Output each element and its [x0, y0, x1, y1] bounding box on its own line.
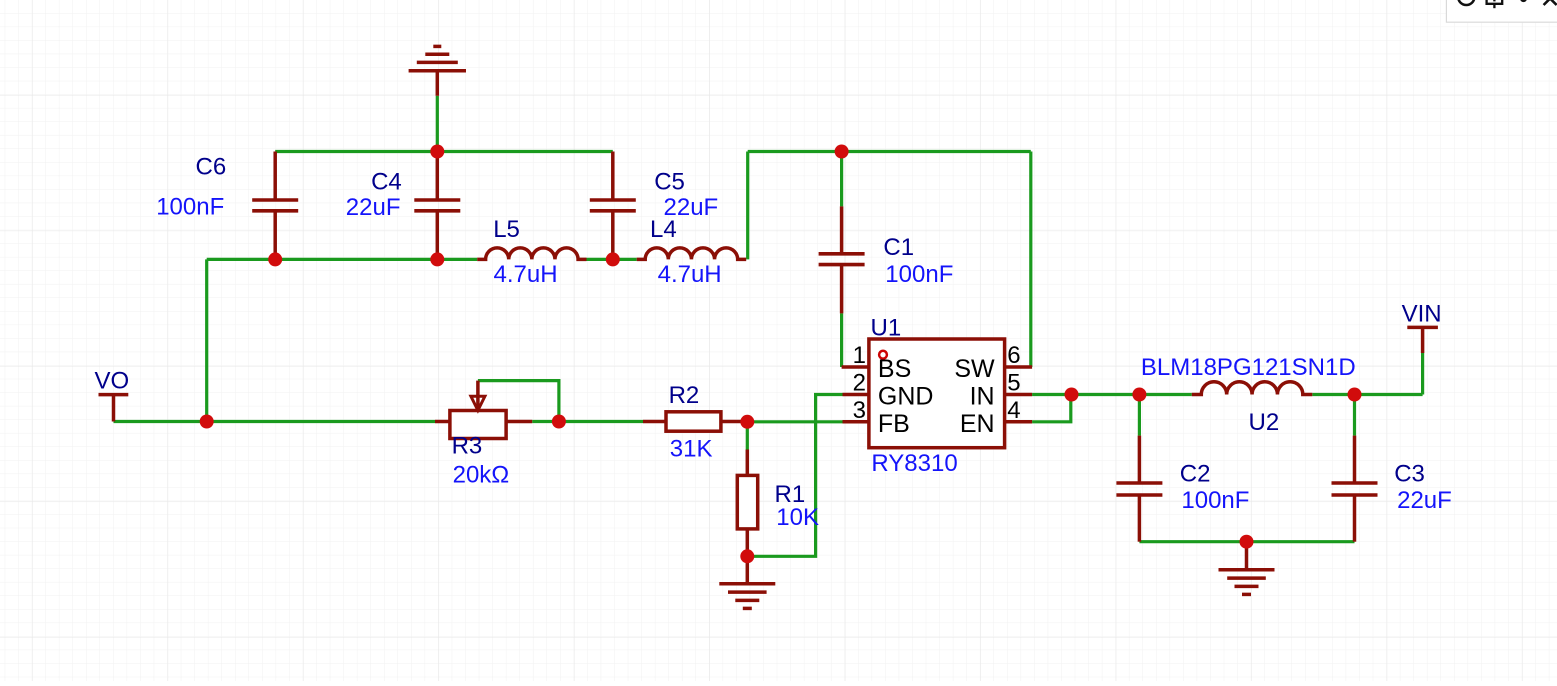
wire row B mid L5-L4 [587, 258, 637, 261]
svg-text:31K: 31K [670, 435, 713, 462]
svg-text:20kΩ: 20kΩ [453, 461, 510, 488]
wire C1 bottom to pin1 [840, 313, 843, 367]
U1 pin 4 stub [1005, 420, 1033, 424]
R2 left lead [643, 420, 666, 424]
wire VIN stem green [1421, 353, 1424, 395]
ground under bottom rail [1219, 542, 1275, 595]
R1 top lead [746, 450, 750, 476]
svg-text:22uF: 22uF [346, 194, 401, 221]
svg-text:6: 6 [1007, 342, 1020, 369]
svg-text:4.7uH: 4.7uH [494, 261, 558, 288]
capacitor C5 [590, 152, 636, 260]
svg-text:R3: R3 [452, 433, 483, 460]
capacitor C4 [414, 152, 460, 260]
toolbar popup panel [1446, 0, 1557, 22]
toolbar pin icon [1487, 0, 1503, 8]
node R2-R1-FB [740, 415, 754, 429]
node C6 bottom [268, 252, 282, 266]
svg-text:C1: C1 [883, 234, 914, 261]
wire C1 top [840, 152, 843, 207]
svg-text:100nF: 100nF [156, 194, 224, 221]
R3 left lead [435, 420, 450, 424]
wire EN tie [1032, 395, 1071, 422]
wire R2 to FB [747, 420, 842, 423]
svg-text:R2: R2 [669, 382, 700, 409]
svg-text:U1: U1 [871, 315, 902, 342]
svg-text:22uF: 22uF [1397, 487, 1452, 514]
wire C2 top [1138, 395, 1141, 436]
toolbar rotate icon [1458, 0, 1475, 5]
svg-text:4.7uH: 4.7uH [658, 261, 722, 288]
wire R3 wiper link [478, 381, 559, 422]
toolbar dot icon [1520, 0, 1527, 2]
R3 wiper arrow [471, 381, 485, 411]
wire R1 gnd to pin2 [747, 395, 842, 557]
wire top right rail [748, 150, 1031, 153]
svg-text:5: 5 [1007, 370, 1020, 397]
text layer [95, 154, 1452, 532]
node gnd-C4 top [430, 145, 444, 159]
wire top GND rail [275, 150, 613, 153]
wire R3 to R2 [532, 420, 643, 423]
svg-text:GND: GND [878, 382, 934, 410]
R3 right lead [506, 420, 532, 424]
svg-text:IN: IN [970, 382, 995, 410]
capacitor C3 [1332, 436, 1378, 542]
node C4 bottom [430, 252, 444, 266]
node bottom ground [1240, 535, 1254, 549]
svg-text:RY8310: RY8310 [871, 450, 957, 477]
wire row B left [207, 258, 478, 261]
wires layer [114, 96, 1423, 557]
svg-text:BLM18PG121SN1D: BLM18PG121SN1D [1141, 354, 1356, 381]
svg-text:VIN: VIN [1402, 301, 1442, 328]
svg-text:10K: 10K [776, 504, 819, 531]
R2 right lead [721, 420, 747, 424]
node IN-EN [1065, 388, 1079, 402]
U1 pin 6 stub [1005, 365, 1033, 369]
toolbar close icon [1544, 0, 1557, 5]
svg-text:L5: L5 [493, 216, 520, 243]
svg-text:C3: C3 [1394, 461, 1425, 488]
net flag VO [99, 395, 129, 422]
svg-text:3: 3 [853, 397, 866, 424]
node C1 top [835, 145, 849, 159]
net flag VIN [1407, 327, 1438, 353]
svg-text:100nF: 100nF [1181, 487, 1249, 514]
wire ground stem green [436, 96, 439, 152]
svg-text:VO: VO [95, 368, 130, 395]
inductor L4 [637, 248, 747, 260]
potentiometer R3 body [450, 411, 506, 439]
ground under R1 [719, 556, 775, 608]
wire C3 top [1353, 395, 1356, 436]
node C5 bottom [606, 252, 620, 266]
node R3 wiper [552, 415, 566, 429]
svg-text:EN: EN [960, 410, 995, 438]
U1 pin 2 stub [843, 393, 869, 397]
wire IN net left [1032, 393, 1192, 396]
node C3 top [1348, 388, 1362, 402]
svg-text:U2: U2 [1249, 409, 1280, 436]
op-amp U1 body [869, 339, 1005, 448]
wire SW drop [1029, 152, 1032, 368]
ferrite bead U2 [1192, 382, 1313, 395]
wire IN net right [1312, 393, 1422, 396]
node VO column [200, 415, 214, 429]
ground top symbol [409, 46, 466, 95]
svg-text:SW: SW [954, 355, 995, 383]
U1 pin 1 stub [842, 365, 869, 369]
svg-text:2: 2 [853, 370, 866, 397]
maroon component layer [99, 46, 1438, 608]
svg-text:C2: C2 [1180, 461, 1211, 488]
wire R1 top [746, 422, 749, 450]
svg-text:4: 4 [1007, 397, 1020, 424]
wire main row VO to R3 [114, 420, 436, 423]
U1 pin1 marker [879, 351, 887, 359]
svg-text:BS: BS [878, 355, 911, 383]
capacitor C6 [252, 152, 298, 260]
svg-text:100nF: 100nF [885, 261, 953, 288]
node R1 ground [740, 549, 754, 563]
node C2 top [1132, 388, 1146, 402]
U1 pin 5 stub [1005, 393, 1033, 397]
svg-text:C4: C4 [371, 169, 402, 196]
svg-text:L4: L4 [650, 216, 677, 243]
svg-text:FB: FB [878, 410, 910, 438]
resistor R1 body [737, 475, 757, 529]
svg-text:1: 1 [853, 342, 866, 369]
wire L4 up corner [746, 152, 749, 260]
capacitor C1 [819, 206, 865, 313]
inductor L5 [477, 248, 586, 260]
wire bottom rail C2-C3 [1139, 540, 1354, 543]
U1 pin 3 stub [843, 420, 869, 424]
R1 bottom lead [746, 529, 750, 556]
svg-text:C5: C5 [654, 169, 685, 196]
capacitor C2 [1116, 436, 1162, 542]
wire left drop C6 column [205, 259, 208, 421]
svg-text:C6: C6 [196, 154, 227, 181]
resistor R2 body [666, 412, 721, 431]
